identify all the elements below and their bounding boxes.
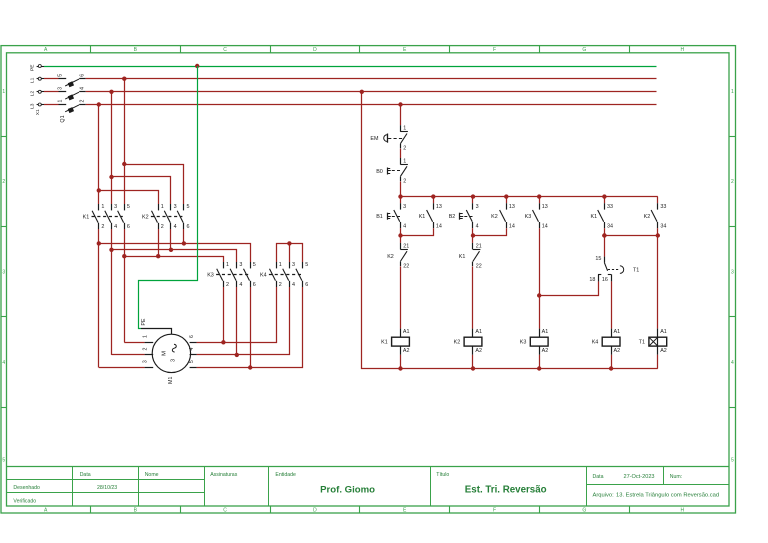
svg-text:5: 5 xyxy=(187,204,190,210)
svg-text:4: 4 xyxy=(114,224,117,230)
svg-text:Data: Data xyxy=(80,472,91,478)
svg-text:3: 3 xyxy=(57,87,63,90)
svg-text:K1: K1 xyxy=(381,340,388,346)
svg-text:5: 5 xyxy=(127,204,130,210)
svg-text:3: 3 xyxy=(142,360,148,363)
svg-text:15: 15 xyxy=(595,256,601,262)
svg-text:14: 14 xyxy=(509,224,515,230)
svg-text:1: 1 xyxy=(279,262,282,268)
svg-text:Data: Data xyxy=(593,474,604,480)
svg-text:A2: A2 xyxy=(614,348,621,354)
svg-text:33: 33 xyxy=(607,204,613,210)
svg-text:F: F xyxy=(493,47,496,53)
svg-text:PE: PE xyxy=(141,318,147,325)
svg-text:1: 1 xyxy=(161,204,164,210)
svg-text:13: 13 xyxy=(436,204,442,210)
svg-text:A2: A2 xyxy=(475,348,482,354)
svg-text:M1: M1 xyxy=(168,376,174,383)
svg-text:A2: A2 xyxy=(403,348,410,354)
svg-text:28/10/23: 28/10/23 xyxy=(97,485,117,491)
svg-text:F: F xyxy=(493,508,496,514)
svg-text:G: G xyxy=(582,508,586,514)
svg-text:5: 5 xyxy=(731,458,734,464)
svg-text:Est. Tri. Reversão: Est. Tri. Reversão xyxy=(465,485,547,496)
svg-text:2: 2 xyxy=(79,100,85,103)
svg-text:2: 2 xyxy=(142,348,148,351)
svg-text:X1: X1 xyxy=(35,109,41,115)
svg-text:1: 1 xyxy=(2,89,5,95)
svg-text:1: 1 xyxy=(142,335,148,338)
svg-text:K2: K2 xyxy=(387,254,394,260)
svg-text:D: D xyxy=(313,47,317,53)
svg-text:4: 4 xyxy=(174,224,177,230)
svg-text:4: 4 xyxy=(731,360,734,366)
svg-text:L1: L1 xyxy=(30,77,36,83)
svg-text:2: 2 xyxy=(101,224,104,230)
svg-text:Entidade: Entidade xyxy=(275,472,296,478)
svg-text:3: 3 xyxy=(114,204,117,210)
svg-text:6: 6 xyxy=(187,224,190,230)
svg-text:1: 1 xyxy=(101,204,104,210)
svg-text:3: 3 xyxy=(476,204,479,210)
svg-text:C: C xyxy=(223,508,227,514)
svg-text:3: 3 xyxy=(2,270,5,276)
svg-text:B2: B2 xyxy=(449,214,456,220)
svg-text:22: 22 xyxy=(476,263,482,269)
svg-text:A1: A1 xyxy=(542,329,549,335)
svg-text:4: 4 xyxy=(239,282,242,288)
svg-text:5: 5 xyxy=(2,458,5,464)
svg-text:2: 2 xyxy=(279,282,282,288)
svg-text:K2: K2 xyxy=(491,214,498,220)
svg-text:Título: Título xyxy=(436,472,449,478)
svg-text:L3: L3 xyxy=(30,103,36,109)
svg-text:13: 13 xyxy=(542,204,548,210)
svg-text:6: 6 xyxy=(79,74,85,77)
svg-text:H: H xyxy=(680,508,684,514)
svg-text:A1: A1 xyxy=(660,329,667,335)
svg-text:A2: A2 xyxy=(542,348,549,354)
svg-text:6: 6 xyxy=(253,282,256,288)
svg-text:13. Estrela Triângulo com Reve: 13. Estrela Triângulo com Reversão.cad xyxy=(616,493,719,499)
svg-text:3: 3 xyxy=(239,262,242,268)
svg-text:3: 3 xyxy=(731,270,734,276)
svg-text:3: 3 xyxy=(403,204,406,210)
svg-text:A1: A1 xyxy=(614,329,621,335)
svg-text:1: 1 xyxy=(57,100,63,103)
svg-text:H: H xyxy=(680,47,684,53)
svg-text:C: C xyxy=(223,47,227,53)
svg-text:18: 18 xyxy=(589,277,595,283)
svg-text:1: 1 xyxy=(731,89,734,95)
svg-text:T1: T1 xyxy=(633,268,639,274)
svg-text:33: 33 xyxy=(660,204,666,210)
svg-text:5: 5 xyxy=(253,262,256,268)
svg-text:Num:: Num: xyxy=(670,474,682,480)
svg-text:Verificado: Verificado xyxy=(13,499,36,505)
svg-text:Nome: Nome xyxy=(145,472,159,478)
svg-text:2: 2 xyxy=(2,179,5,185)
svg-text:6: 6 xyxy=(305,282,308,288)
svg-text:B0: B0 xyxy=(376,169,383,175)
svg-text:22: 22 xyxy=(403,263,409,269)
svg-text:3: 3 xyxy=(292,262,295,268)
svg-text:5: 5 xyxy=(305,262,308,268)
svg-text:Prof. Giomo: Prof. Giomo xyxy=(320,485,375,496)
svg-text:K3: K3 xyxy=(207,272,214,278)
svg-text:K1: K1 xyxy=(459,254,466,260)
svg-text:G: G xyxy=(582,47,586,53)
svg-text:K2: K2 xyxy=(142,214,149,220)
svg-text:1: 1 xyxy=(403,126,406,132)
svg-text:4: 4 xyxy=(476,224,479,230)
svg-text:5: 5 xyxy=(189,360,195,363)
svg-text:34: 34 xyxy=(660,224,666,230)
svg-text:1: 1 xyxy=(226,262,229,268)
svg-text:Assinaturas: Assinaturas xyxy=(210,472,238,478)
svg-text:3: 3 xyxy=(174,204,177,210)
svg-text:K1: K1 xyxy=(83,214,90,220)
svg-text:5: 5 xyxy=(57,74,63,77)
svg-text:A1: A1 xyxy=(475,329,482,335)
svg-text:K4: K4 xyxy=(260,272,267,278)
svg-text:13: 13 xyxy=(509,204,515,210)
svg-text:K2: K2 xyxy=(454,340,461,346)
svg-text:1: 1 xyxy=(403,158,406,164)
svg-text:Q1: Q1 xyxy=(60,115,66,122)
svg-text:A2: A2 xyxy=(660,348,667,354)
svg-text:D: D xyxy=(313,508,317,514)
svg-text:27-Oct-2023: 27-Oct-2023 xyxy=(623,474,654,480)
svg-text:K3: K3 xyxy=(525,214,532,220)
svg-text:Desenhado: Desenhado xyxy=(13,485,40,491)
svg-text:M: M xyxy=(162,351,168,356)
svg-text:6: 6 xyxy=(189,335,195,338)
svg-text:2: 2 xyxy=(731,179,734,185)
svg-text:B1: B1 xyxy=(376,214,383,220)
svg-text:4: 4 xyxy=(189,348,195,351)
svg-text:EM: EM xyxy=(370,136,379,142)
svg-text:4: 4 xyxy=(403,224,406,230)
svg-text:6: 6 xyxy=(127,224,130,230)
svg-text:2: 2 xyxy=(161,224,164,230)
svg-text:Arquivo:: Arquivo: xyxy=(593,493,615,499)
svg-text:T1: T1 xyxy=(639,340,645,346)
svg-text:16: 16 xyxy=(602,277,608,283)
svg-text:14: 14 xyxy=(542,224,548,230)
svg-text:PE: PE xyxy=(30,64,36,71)
svg-text:34: 34 xyxy=(607,224,613,230)
svg-text:21: 21 xyxy=(403,243,409,249)
svg-text:3: 3 xyxy=(171,359,177,362)
svg-text:2: 2 xyxy=(403,178,406,184)
svg-text:K1: K1 xyxy=(591,214,598,220)
svg-text:K2: K2 xyxy=(644,214,651,220)
svg-text:K1: K1 xyxy=(419,214,426,220)
svg-text:4: 4 xyxy=(292,282,295,288)
svg-text:K4: K4 xyxy=(592,340,599,346)
svg-text:4: 4 xyxy=(2,360,5,366)
svg-text:A1: A1 xyxy=(403,329,410,335)
svg-text:K3: K3 xyxy=(520,340,527,346)
svg-text:21: 21 xyxy=(476,243,482,249)
svg-text:L2: L2 xyxy=(30,91,36,97)
svg-text:2: 2 xyxy=(226,282,229,288)
svg-text:4: 4 xyxy=(79,87,85,90)
svg-text:2: 2 xyxy=(403,146,406,152)
svg-text:14: 14 xyxy=(436,224,442,230)
